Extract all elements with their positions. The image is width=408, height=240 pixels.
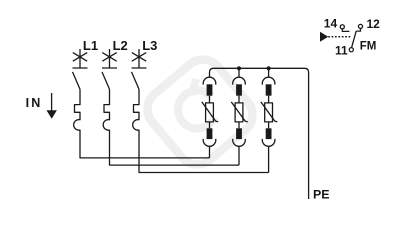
varistor module 2 xyxy=(235,103,243,122)
wire L1 with plug contacts to arrester xyxy=(74,89,210,158)
arrester module 3: pin top xyxy=(266,84,272,95)
varistor module 1 xyxy=(206,103,214,122)
svg-text:FM: FM xyxy=(360,40,377,52)
switch blade L2 xyxy=(102,72,110,89)
varistor module 3 xyxy=(265,103,273,122)
arrester module 2: wire xyxy=(238,96,240,103)
arrester module 1: pin bottom xyxy=(207,128,213,139)
arrester module 1: socket bottom xyxy=(203,139,216,146)
junction dot node 2 xyxy=(237,66,241,70)
arrester module 2: pin bottom xyxy=(236,128,242,139)
arrester module 2: pin top xyxy=(236,84,242,95)
arrester module 3: wire from bus xyxy=(268,68,270,77)
arrester module 2: wire down xyxy=(238,146,240,165)
FM remote contact: triangle xyxy=(320,32,328,42)
arrester module 1: wire xyxy=(209,122,211,128)
wire L3 with plug contacts to arrester xyxy=(133,89,269,172)
svg-text:L2: L2 xyxy=(113,38,128,53)
arrester module 3: wire xyxy=(268,96,270,103)
svg-text:12: 12 xyxy=(367,17,381,31)
FM contact lever xyxy=(352,31,357,48)
FM remote contact: dashed link xyxy=(328,36,350,38)
arrester module 2: socket bottom xyxy=(233,139,246,146)
arrester module 3: socket top xyxy=(262,77,275,84)
svg-text:L3: L3 xyxy=(142,38,157,53)
arrester module 1: wire down xyxy=(209,146,211,158)
svg-text:L1: L1 xyxy=(83,38,98,53)
arrester module 1: pin top xyxy=(207,84,213,95)
arrester module 2: wire from bus xyxy=(238,68,240,77)
wire L2 with plug contacts to arrester xyxy=(103,89,239,165)
PE bus xyxy=(210,68,309,199)
svg-text:IN: IN xyxy=(26,96,43,110)
arrester module 1: socket top xyxy=(203,77,216,84)
arrester module 3: socket bottom xyxy=(262,139,275,146)
disconnector L3 xyxy=(132,49,147,68)
switch blade L3 xyxy=(132,72,140,89)
svg-text:PE: PE xyxy=(313,188,330,202)
arrester module 3: wire down xyxy=(268,146,270,173)
arrester module 3: wire xyxy=(268,122,270,128)
arrester module 1: wire xyxy=(209,96,211,103)
IN arrow xyxy=(51,93,53,111)
disconnector L2 xyxy=(102,49,117,68)
svg-text:11: 11 xyxy=(335,43,348,57)
arrester module 2: socket top xyxy=(233,77,246,84)
svg-text:14: 14 xyxy=(324,16,338,30)
disconnector L1 xyxy=(73,49,88,68)
arrester module 3: pin bottom xyxy=(266,128,272,139)
switch blade L1 xyxy=(73,72,81,89)
arrester module 2: wire xyxy=(238,122,240,128)
watermark xyxy=(139,51,260,172)
junction dot node 3 xyxy=(267,66,271,70)
